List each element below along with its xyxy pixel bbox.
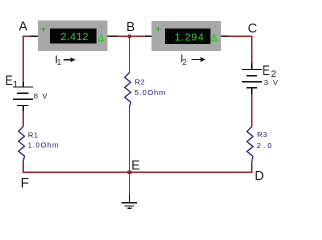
node B junction dot	[128, 35, 131, 38]
wire battery E1 to resistor R1	[22, 111, 24, 126]
svg-text:+: +	[41, 24, 47, 35]
wire A corner to ammeter U1 left	[23, 36, 38, 82]
svg-text:D: D	[255, 168, 264, 183]
svg-text:2: 2	[182, 58, 187, 67]
wire E2 to resistor R3	[251, 94, 253, 127]
resistor R3	[247, 127, 253, 162]
svg-text:R2: R2	[135, 77, 145, 86]
svg-text:R3: R3	[257, 130, 267, 139]
battery E1	[13, 82, 33, 111]
resistor R2	[125, 72, 131, 107]
label E1	[5, 73, 18, 90]
svg-text:8: 8	[34, 92, 38, 101]
svg-text:B: B	[126, 19, 135, 34]
ground stem wire	[129, 172, 131, 194]
svg-text:C: C	[248, 20, 257, 35]
svg-text:V: V	[273, 78, 278, 87]
svg-text:2.0: 2.0	[257, 141, 274, 150]
svg-text:E: E	[131, 158, 140, 173]
ammeter U1	[38, 21, 108, 52]
label I2 with arrow	[180, 53, 205, 67]
svg-text:+: +	[156, 24, 162, 35]
wire R2 to node E	[129, 107, 131, 172]
label I1 with arrow	[55, 54, 76, 67]
svg-text:A: A	[19, 19, 28, 34]
wire node E to node F corner up to resistor R1	[23, 161, 129, 172]
label E2	[262, 63, 276, 80]
ground	[122, 194, 137, 208]
svg-text:5.0Ohm: 5.0Ohm	[135, 88, 166, 97]
svg-text:1: 1	[57, 58, 62, 67]
wire U2 right to node C corner down to battery E2	[221, 36, 252, 63]
svg-text:F: F	[21, 175, 29, 190]
svg-text:3: 3	[264, 78, 268, 87]
svg-text:1.294: 1.294	[175, 31, 205, 43]
svg-text:E: E	[262, 63, 269, 78]
wire U1 right to node B to ammeter U2 left	[108, 35, 153, 37]
battery E2	[242, 63, 262, 94]
svg-text:E: E	[5, 73, 12, 88]
svg-text:1: 1	[13, 79, 18, 90]
resistor R1	[19, 126, 25, 161]
svg-text:V: V	[42, 92, 47, 101]
svg-text:R1: R1	[28, 130, 38, 139]
node E junction dot	[128, 171, 132, 175]
ammeter U2	[152, 21, 222, 51]
svg-text:2.412: 2.412	[61, 31, 89, 43]
wire B down to resistor R2	[129, 36, 131, 72]
wire R3 to node D corner	[130, 161, 252, 172]
svg-text:1.0Ohm: 1.0Ohm	[28, 141, 59, 150]
